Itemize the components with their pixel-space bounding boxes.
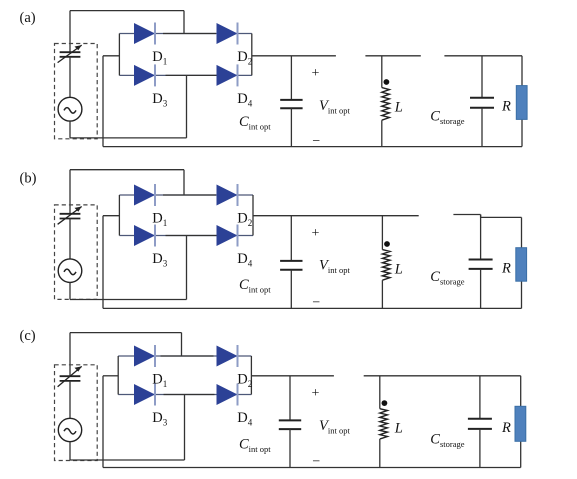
diode D2 (217, 185, 238, 206)
wire bridge left rail (118, 195, 120, 236)
circuit (b) (20, 170, 527, 311)
wire output top rail segment 1 (252, 55, 336, 57)
wire top rail from source to bridge top midpoint (70, 10, 184, 12)
wire source to bridge left rail (103, 55, 119, 57)
dashed source box (55, 205, 98, 300)
wire output top rail segment 2 (453, 214, 480, 216)
wire bridge left rail (118, 34, 120, 76)
svg-text:(b): (b) (20, 171, 37, 187)
resistor R (521, 217, 523, 247)
capacitor C_int_opt (289, 376, 291, 421)
variable capacitor arrow (58, 45, 82, 63)
capacitor C_storage (481, 56, 483, 98)
diode D4 (217, 65, 238, 86)
svg-text:L: L (394, 262, 403, 278)
wire output top rail segment 1 (253, 215, 419, 217)
wire output top rail segment 3 (444, 55, 522, 57)
wire capacitor to AC source (69, 57, 71, 98)
svg-text:+: + (312, 226, 320, 241)
wire source bottom return to bridge bottom midpoint (69, 442, 71, 460)
inductor dot (384, 79, 390, 85)
inductor L (379, 376, 381, 409)
diode D2 (217, 346, 238, 367)
capacitor C_storage (479, 376, 481, 419)
variable capacitor (piezo element) (60, 375, 81, 377)
svg-text:−: − (312, 134, 320, 149)
wire bridge bottom row (119, 74, 251, 76)
capacitor C_int_opt (290, 216, 292, 261)
wire bridge left rail down to bottom rail (102, 216, 104, 309)
wire bridge top row (118, 355, 251, 357)
wire source top lead (69, 333, 71, 377)
wire bridge top row (119, 194, 253, 196)
wire bridge left rail down to bottom rail (102, 376, 104, 468)
inductor L (381, 56, 383, 88)
capacitor C_int_opt (290, 56, 292, 100)
wire bottom rail (103, 146, 522, 148)
svg-text:(c): (c) (20, 328, 36, 344)
wire capacitor to AC source (69, 381, 71, 418)
svg-text:R: R (501, 260, 511, 276)
wire bridge left rail down to bottom rail (102, 56, 104, 147)
diode D3 (134, 225, 155, 246)
circuit (c) (20, 328, 526, 470)
inductor dot (384, 241, 390, 247)
svg-text:L: L (394, 421, 403, 437)
svg-text:R: R (501, 420, 511, 436)
inductor L (381, 216, 383, 250)
variable capacitor arrow (58, 366, 82, 386)
wire source to bridge left rail (103, 375, 118, 377)
AC source V1 (58, 259, 82, 283)
wire source top lead (69, 170, 71, 214)
wire source to bridge left rail (103, 215, 119, 217)
svg-text:R: R (501, 99, 511, 115)
diode D3 (134, 65, 155, 86)
wire bottom rail (103, 467, 521, 469)
wire bridge left rail (117, 356, 119, 395)
diode D1 (134, 23, 155, 44)
svg-text:+: + (312, 66, 320, 81)
wire bridge right rail (251, 34, 253, 76)
wire output top rail segment 1 (251, 375, 334, 377)
dashed source box (55, 44, 98, 139)
diode D4 (217, 384, 238, 405)
wire source bottom return to bridge bottom midpoint (69, 283, 71, 300)
wire top rail from source to bridge top midpoint (70, 332, 182, 334)
wire bottom rail (103, 307, 522, 309)
wire output top rail segment 2 (365, 55, 420, 57)
svg-text:−: − (312, 296, 320, 311)
diode D1 (134, 185, 155, 206)
variable capacitor (piezo element) (60, 51, 81, 53)
AC source V1 (58, 418, 81, 441)
diode D2 (217, 23, 238, 44)
wire top rail from source to bridge top midpoint (70, 169, 184, 171)
resistor R (521, 56, 523, 86)
wire source top lead (69, 11, 71, 53)
diode D1 (134, 346, 155, 367)
wire bridge right rail (250, 356, 252, 395)
inductor dot (382, 400, 388, 406)
circuit (a) (20, 10, 528, 149)
wire capacitor to AC source (69, 219, 71, 259)
wire bridge bottom row (119, 235, 253, 237)
wire bridge top row (119, 33, 251, 35)
wire output top rail segment 3 (481, 216, 522, 218)
diode D4 (217, 225, 238, 246)
wire source bottom return to bridge bottom midpoint (69, 121, 71, 138)
AC source V1 (58, 97, 82, 121)
wire output top rail segment 2 (364, 375, 521, 377)
svg-text:(a): (a) (20, 10, 36, 26)
dashed source box (55, 365, 98, 461)
wire segment step (480, 215, 482, 218)
diode D3 (134, 384, 155, 405)
svg-text:−: − (312, 455, 320, 470)
svg-text:+: + (312, 386, 320, 401)
capacitor C_storage (480, 215, 482, 260)
variable capacitor (piezo element) (60, 213, 81, 215)
wire bridge bottom row (118, 394, 251, 396)
resistor R (520, 376, 522, 407)
svg-text:L: L (394, 100, 403, 116)
variable capacitor arrow (58, 207, 82, 225)
wire bridge right rail (252, 195, 254, 236)
